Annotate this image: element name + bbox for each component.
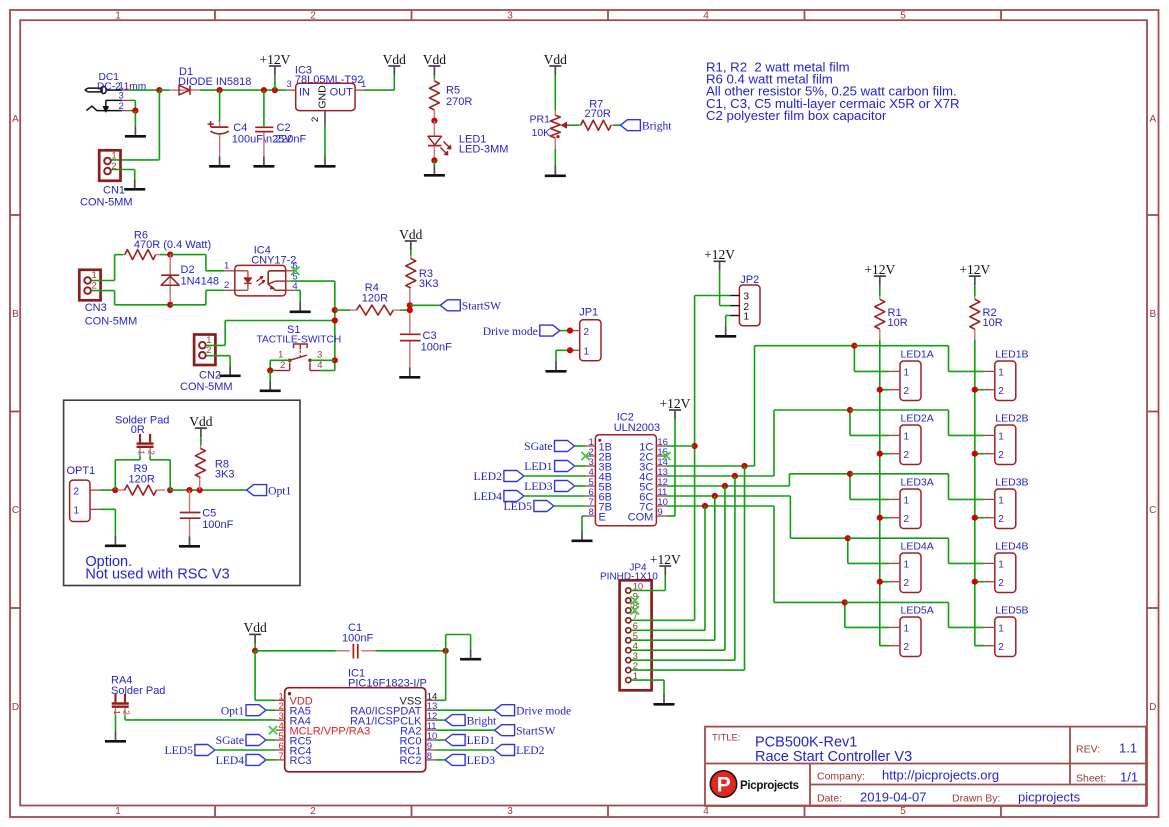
wire R2 rail to LED4B pin2 <box>975 581 984 583</box>
wire 0R right to R9 <box>150 455 170 490</box>
wire R1 rail to LED1A pin2 <box>880 389 889 391</box>
svg-text:2: 2 <box>147 450 156 455</box>
resistor R8 <box>195 445 205 490</box>
wire Vdd to node <box>254 643 256 650</box>
svg-text:Picprojects: Picprojects <box>740 780 799 792</box>
wire JP4 pin10 to +12V <box>631 575 665 591</box>
ground below CN1 <box>124 180 145 190</box>
flag Drive mode JP1 <box>483 325 560 338</box>
label OPT1 <box>67 465 96 477</box>
rail R1 column <box>880 340 889 646</box>
wire JP2 pin3 rail <box>695 296 731 621</box>
svg-text:TITLE:: TITLE: <box>712 733 741 744</box>
wire S1 pin1 left <box>270 359 290 361</box>
svg-text:Vdd: Vdd <box>383 52 406 67</box>
label CNY17-2 <box>251 254 296 266</box>
junction D2 bottom <box>167 302 173 308</box>
svg-text:1: 1 <box>998 432 1004 443</box>
connector CN1 <box>99 150 120 181</box>
optocoupler IC4 <box>235 265 295 296</box>
junction JP1 pin1 <box>567 347 573 353</box>
svg-text:LED3B: LED3B <box>995 476 1028 488</box>
wire S1 pin3 to rail <box>310 359 335 361</box>
wire Vdd to R3 <box>410 250 412 256</box>
svg-text:COM: COM <box>628 511 654 523</box>
svg-text:5: 5 <box>900 806 906 817</box>
label CON-5MM CN3 <box>85 316 138 328</box>
svg-text:Solder Pad: Solder Pad <box>111 685 165 697</box>
svg-text:GND: GND <box>317 85 329 109</box>
wire RA4 pad to RA4 pin <box>125 715 276 720</box>
svg-text:2: 2 <box>998 514 1004 525</box>
connector LED2A <box>889 412 934 464</box>
wire JP1 pin1 to gnd <box>556 350 574 361</box>
label C3 value <box>421 342 452 354</box>
connector LED4B <box>984 540 1029 592</box>
svg-text:LED2: LED2 <box>474 470 503 483</box>
wire Drive mode to JP1 <box>560 330 575 332</box>
svg-text:2019-04-07: 2019-04-07 <box>860 790 927 805</box>
svg-text:5: 5 <box>900 11 906 22</box>
ground below RA4 pad <box>105 732 126 742</box>
resistor R5 <box>429 79 439 121</box>
junction rail R4 <box>332 307 338 313</box>
ground below IC4 <box>290 302 311 312</box>
svg-text:SGate: SGate <box>524 440 552 453</box>
svg-text:2: 2 <box>998 450 1004 461</box>
label LED-3MM <box>459 143 509 155</box>
connector CN2 <box>194 335 215 366</box>
wire JP4 pin3 to 4C <box>631 476 735 660</box>
wire stub IC4 pin2 <box>225 289 248 291</box>
supply +12V at ULN COM <box>660 396 691 419</box>
supply Vdd at IC3 <box>383 52 406 75</box>
wire JP2 pin1 to gnd <box>726 316 730 327</box>
label R5 value <box>446 96 472 108</box>
wire +12V drop <box>274 75 276 90</box>
no-connect X JP4 pin9 <box>631 596 639 604</box>
no-connect X IC4 pin6 <box>291 267 299 275</box>
svg-text:470R (0.4 Watt): 470R (0.4 Watt) <box>134 239 211 251</box>
svg-text:Vdd: Vdd <box>544 52 567 67</box>
svg-text:270R: 270R <box>585 108 611 120</box>
wire R1 rail to LED2A pin2 <box>880 453 889 455</box>
potentiometer PR1 <box>550 110 571 149</box>
junction JP1 pin2 <box>567 328 573 334</box>
label C5 value <box>202 519 233 531</box>
svg-text:1: 1 <box>904 624 910 635</box>
svg-text:10K: 10K <box>532 127 551 139</box>
svg-text:4: 4 <box>317 360 322 371</box>
flag SGate ULN <box>524 440 574 453</box>
svg-text:DIODE IN5818: DIODE IN5818 <box>178 76 251 88</box>
svg-text:D2: D2 <box>181 264 195 276</box>
svg-text:2: 2 <box>904 514 910 525</box>
svg-text:1: 1 <box>998 624 1004 635</box>
label CON-5MM CN2 <box>180 381 233 393</box>
label JP1 <box>579 307 598 319</box>
switch S1 <box>275 344 321 371</box>
svg-text:C: C <box>1149 505 1156 516</box>
svg-text:Drive mode: Drive mode <box>516 704 571 717</box>
Drawn By label <box>952 793 1000 805</box>
svg-text:+12V: +12V <box>259 52 290 67</box>
wire C4 top lead <box>219 90 221 122</box>
wire 0R left to R9 <box>115 455 140 490</box>
connector LED5B <box>984 604 1029 656</box>
wire LED4 to 6B <box>524 495 586 497</box>
flag StartSW PIC <box>495 724 556 737</box>
svg-text:CN3: CN3 <box>85 302 107 314</box>
flag Opt1 to RA5 <box>221 704 266 717</box>
junction R3 R4 <box>407 307 413 313</box>
flag LED2 PIC <box>495 744 545 757</box>
junction R2 rail row4 <box>972 579 978 585</box>
label CN3 <box>85 302 107 314</box>
supply +12V at JP2 <box>704 247 735 270</box>
junction row1 A drop <box>851 343 857 349</box>
junction Vdd C1 node <box>252 648 258 654</box>
supply Vdd at PR1 <box>544 52 567 75</box>
svg-text:1: 1 <box>224 261 229 272</box>
pin number S1 3 <box>317 349 322 360</box>
ground below LED1 <box>424 166 445 176</box>
svg-text:P: P <box>717 774 731 797</box>
svg-text:100nF: 100nF <box>202 519 233 531</box>
junction row4 A drop <box>845 535 851 541</box>
svg-text:1: 1 <box>904 560 910 571</box>
wire CN1 pin2 to ground <box>112 170 135 180</box>
junction LED1 bottom <box>431 157 437 163</box>
junction R9 left <box>112 487 118 493</box>
flag StartSW <box>440 300 501 313</box>
svg-text:2: 2 <box>904 450 910 461</box>
junction C5 top <box>186 487 192 493</box>
wire RA2 to StartSW <box>435 729 494 731</box>
flag LED4 ULN <box>474 490 524 503</box>
svg-text:LED2: LED2 <box>516 744 545 757</box>
supply +12V at R1 <box>864 262 895 285</box>
label IC3 <box>295 65 312 77</box>
svg-text:Bright: Bright <box>642 119 672 132</box>
Company label <box>817 771 865 783</box>
wire Opt1 to RA5 <box>266 709 276 711</box>
label R2 <box>983 307 997 319</box>
resistor R2 <box>970 296 980 340</box>
wire row1 to LED1A pin1 <box>854 346 889 372</box>
wire 5C to LED3 row <box>666 474 850 486</box>
junction rail S1 pin3 <box>332 357 338 363</box>
label R4 <box>365 282 379 294</box>
wire RA1 to Bright <box>435 719 445 721</box>
pin header JP4 <box>620 580 652 690</box>
solder pad 0R symbol <box>137 434 156 456</box>
svg-text:+12V: +12V <box>864 262 895 277</box>
junction +12V tap <box>272 87 278 93</box>
svg-text:D: D <box>12 702 19 713</box>
svg-text:CN2: CN2 <box>199 370 221 382</box>
flag LED4 to RC3 <box>216 754 266 767</box>
connector LED1A <box>889 348 934 400</box>
svg-text:A: A <box>1149 114 1156 125</box>
wire RA0 to Drive mode <box>435 709 494 711</box>
connector LED3A <box>889 476 934 528</box>
svg-text:LED1: LED1 <box>467 734 496 747</box>
svg-text:120R: 120R <box>129 473 155 485</box>
svg-text:RC2: RC2 <box>399 755 421 767</box>
ground below OPT1 <box>105 536 126 546</box>
connector LED5A <box>889 604 934 656</box>
wire down to ground <box>134 111 136 127</box>
wire R7 to Bright flag <box>614 124 621 126</box>
svg-text:LED1: LED1 <box>524 460 553 473</box>
pin number S1 4 <box>317 360 322 371</box>
svg-text:CON-5MM: CON-5MM <box>85 316 138 328</box>
diode D2 <box>161 255 179 305</box>
capacitor C1 <box>336 644 376 659</box>
wire 3C to LED1 row <box>666 346 854 466</box>
label 78L05ML-T92 <box>295 74 364 86</box>
wire RC0 to LED1 <box>435 739 445 741</box>
svg-text:R5: R5 <box>446 85 460 97</box>
pin number 2 GND <box>310 117 321 122</box>
label R1 value <box>888 317 908 329</box>
wire to StartSW flag <box>410 304 441 306</box>
label IC1 <box>348 667 365 679</box>
flag LED1 PIC <box>445 734 495 747</box>
label C5 <box>202 508 216 520</box>
svg-text:220nF: 220nF <box>275 133 306 145</box>
junction 4C drop <box>732 473 738 479</box>
diode D1 <box>170 85 201 95</box>
junction R3 StartSW <box>407 302 413 308</box>
flag SGate to RC5 <box>216 734 266 747</box>
ground below JP1 <box>546 362 567 372</box>
svg-text:2: 2 <box>998 386 1004 397</box>
label JP4 <box>629 563 647 574</box>
wire Vdd to R5 <box>433 75 435 79</box>
label R4 value <box>362 293 388 305</box>
svg-text:B: B <box>12 309 19 320</box>
wire RA4 pad to gnd <box>115 715 117 731</box>
label Solder Pad RA4 <box>111 685 165 697</box>
svg-text:LED2A: LED2A <box>901 412 934 424</box>
wire Vdd to PR1 <box>554 75 556 110</box>
wire R2 rail to LED3B pin2 <box>975 517 984 519</box>
svg-text:2: 2 <box>904 642 910 653</box>
svg-text:Opt1: Opt1 <box>221 704 244 717</box>
label IC2 <box>617 411 634 423</box>
wire +12V to R1 <box>879 285 881 296</box>
wire JP4 pin6 to 7C <box>631 506 705 630</box>
wire E to gnd <box>582 516 585 531</box>
no-connect X JP4 pin8 <box>631 606 639 614</box>
svg-text:Date:: Date: <box>817 793 842 805</box>
svg-text:+12V: +12V <box>650 552 681 567</box>
ground below JP2 <box>715 327 736 337</box>
ground at C1 <box>460 649 481 659</box>
ground below C3 <box>399 368 420 378</box>
ground below C4 <box>209 157 230 167</box>
wire CN2 pin2 to gnd <box>206 356 230 366</box>
svg-text:LED-3MM: LED-3MM <box>459 143 509 155</box>
supply +12V input <box>259 52 290 75</box>
pin number IC4 5 <box>292 272 297 283</box>
picprojects logo <box>710 771 798 797</box>
svg-text:Not used with RSC V3: Not used with RSC V3 <box>85 567 229 583</box>
label D2 <box>181 264 195 276</box>
Drawn By value <box>1018 790 1081 805</box>
label R6 <box>134 230 148 242</box>
wire row3 to LED3A pin1 <box>850 474 889 500</box>
svg-text:Vdd: Vdd <box>423 52 446 67</box>
supply Vdd at IC1 <box>243 620 266 643</box>
svg-text:2: 2 <box>280 360 285 371</box>
wire OPT1 pin1 to gnd <box>99 509 115 536</box>
svg-text:+12V: +12V <box>959 262 990 277</box>
supply Vdd at R5 <box>423 52 446 75</box>
supply +12V at R2 <box>959 262 990 285</box>
svg-text:LED3: LED3 <box>467 754 496 767</box>
wire top rail to IC4 pin1 <box>170 255 225 271</box>
svg-text:10R: 10R <box>983 317 1003 329</box>
connector OPT1 <box>70 480 100 521</box>
wire R9 to Opt1 flag <box>170 489 246 491</box>
capacitor C3 <box>400 334 421 367</box>
svg-text:120R: 120R <box>362 293 388 305</box>
capacitor C2 <box>255 127 273 156</box>
svg-text:Race Start Controller V3: Race Start Controller V3 <box>755 749 912 765</box>
junction VSS node <box>443 648 449 654</box>
connector LED2B <box>984 412 1029 464</box>
wire bottom rail to IC4 pin2 <box>170 290 225 305</box>
label PR1 value <box>532 127 551 139</box>
svg-text:picprojects: picprojects <box>1018 790 1081 805</box>
no-connect X MCLR <box>269 726 277 734</box>
svg-text:OPT1: OPT1 <box>67 465 96 477</box>
wire 4C to LED2 row <box>666 410 850 476</box>
svg-text:2: 2 <box>904 386 910 397</box>
ground below PR1 <box>545 166 566 176</box>
wire Vdd to R8 <box>200 437 202 445</box>
wire R1 rail to LED3A pin2 <box>880 517 889 519</box>
svg-text:4: 4 <box>703 11 709 22</box>
wire LED5 to RC4 <box>215 749 276 751</box>
svg-text:PINHD-1X10: PINHD-1X10 <box>600 572 658 583</box>
svg-text:1: 1 <box>998 368 1004 379</box>
wire row5 to LED5A pin1 <box>845 602 889 627</box>
flag LED3 ULN <box>524 480 574 493</box>
wire IC4 pin5 to rail <box>291 280 335 282</box>
wire IC4 pin4 to gnd <box>295 290 300 302</box>
label C1 <box>348 622 362 634</box>
flag LED5 to RC4 <box>165 744 215 757</box>
svg-text:Sheet:: Sheet: <box>1076 773 1106 785</box>
svg-text:1N4148: 1N4148 <box>181 276 220 288</box>
label Solder Pad opt <box>115 415 169 427</box>
label CN1 <box>103 185 125 197</box>
label TACTILE-SWITCH <box>257 335 342 346</box>
junction R2 rail row2 <box>972 451 978 457</box>
svg-text:100nF: 100nF <box>421 342 452 354</box>
label C1 value <box>342 633 373 645</box>
svg-text:Company:: Company: <box>817 771 865 783</box>
ground below ULN E <box>572 531 593 541</box>
label 0R <box>131 424 145 436</box>
wire RC1 to LED2 <box>435 749 494 751</box>
option box outline <box>64 400 300 585</box>
svg-text:2: 2 <box>122 710 131 715</box>
resistor R4 <box>350 305 400 315</box>
Sheet value 1/1 <box>1120 770 1138 785</box>
svg-text:1: 1 <box>904 496 910 507</box>
wire R6 to D2 junction <box>160 254 170 256</box>
label DC-2.1mm <box>97 81 146 92</box>
svg-text:1/1: 1/1 <box>1120 770 1138 785</box>
pin number S1 2 <box>280 360 285 371</box>
junction row3 A drop <box>847 471 853 477</box>
wire input node down to CN1 <box>112 90 160 160</box>
wire JP4 pin2 to 3C <box>631 466 745 670</box>
label R9 <box>134 463 148 475</box>
ground below CN2 <box>220 366 241 376</box>
svg-text:2: 2 <box>998 578 1004 589</box>
junction R8 bottom <box>197 487 203 493</box>
flag Opt1 out <box>247 484 292 497</box>
label R3 <box>419 268 433 280</box>
svg-text:CN1: CN1 <box>103 185 125 197</box>
svg-text:1: 1 <box>137 450 146 455</box>
resistor R1 <box>875 296 885 340</box>
label 1N4148 <box>181 276 220 288</box>
svg-text:1: 1 <box>361 79 366 90</box>
title block TITLE label <box>712 733 741 744</box>
svg-text:1: 1 <box>278 349 283 360</box>
wire LED5 to 7B <box>554 505 586 507</box>
wire 6C to LED4 row <box>666 496 847 538</box>
svg-text:8: 8 <box>589 507 594 518</box>
pin number IC4 2 <box>224 280 229 291</box>
wire row4 to LED4A pin1 <box>848 538 889 563</box>
resistor R9 <box>117 485 165 495</box>
svg-text:3: 3 <box>287 79 292 90</box>
vertical rail IC4-S1 <box>334 281 336 370</box>
label JP2 <box>740 274 759 286</box>
Date value <box>860 790 927 805</box>
svg-text:10R: 10R <box>888 317 908 329</box>
svg-text:7: 7 <box>279 751 284 762</box>
wire S1 left bracket <box>270 360 274 370</box>
wire pin2 <box>130 110 136 112</box>
wire S1 to gnd <box>269 371 271 382</box>
svg-text:2: 2 <box>310 11 316 22</box>
svg-text:C5: C5 <box>202 508 216 520</box>
ground below IC3 <box>315 157 336 167</box>
svg-text:LED4: LED4 <box>216 754 245 767</box>
pin number 1 OUT <box>361 79 366 90</box>
wire LED4 to RC3 <box>266 759 276 761</box>
wire CN3 pin2 to bottom rail <box>92 291 171 305</box>
svg-text:2: 2 <box>74 486 80 497</box>
label R7 value <box>585 108 611 120</box>
label PR1 <box>530 113 551 125</box>
wire D1 to IC3 IN <box>200 89 286 91</box>
label R9 value <box>129 473 155 485</box>
svg-text:1: 1 <box>115 11 121 22</box>
label DIODE IN5818 <box>178 76 251 88</box>
svg-text:LED3: LED3 <box>524 480 553 493</box>
svg-text:Bright: Bright <box>467 714 497 727</box>
